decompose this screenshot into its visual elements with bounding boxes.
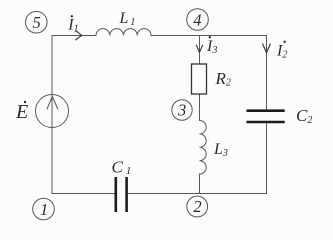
inductor L1 <box>96 29 151 36</box>
node 4 circle <box>187 9 209 31</box>
capacitor C1 plates <box>116 177 127 212</box>
resistor R2 <box>192 64 207 94</box>
svg-text:4: 4 <box>193 11 201 30</box>
wire middle branch between R2 and L3 <box>199 94 201 121</box>
wire bottom-left segment <box>52 193 115 195</box>
svg-text:2: 2 <box>193 197 201 216</box>
label I2 dot <box>284 41 286 43</box>
node 5 circle <box>26 11 48 33</box>
wire middle branch lower (L3 to bottom) <box>199 174 201 193</box>
node 2 circle <box>187 196 208 217</box>
node 3 circle <box>172 100 192 120</box>
wire right upper segment <box>266 36 268 110</box>
svg-text:1: 1 <box>40 200 48 219</box>
arrow I3 <box>196 45 202 52</box>
svg-text:3: 3 <box>177 101 186 120</box>
label I1 dot <box>71 15 73 17</box>
wire top-left segment (node 5 corner to L1) <box>52 35 96 37</box>
node 1 circle <box>33 198 55 220</box>
source E circle <box>36 95 69 128</box>
arrowhead I1 <box>76 31 82 40</box>
capacitor C2 plates <box>247 111 285 122</box>
label E dot <box>24 101 26 103</box>
wire bottom-right segment <box>128 193 267 195</box>
inductor L3 <box>200 121 207 175</box>
svg-text:E: E <box>15 101 28 123</box>
wire middle branch upper (node 4 to R2) <box>199 36 201 65</box>
arrowhead I2 <box>263 44 271 53</box>
wire left side <box>51 36 53 194</box>
wire right lower segment <box>266 124 268 194</box>
label I3 dot <box>209 36 211 38</box>
source E arrowhead <box>47 97 58 110</box>
wire top-right segment (L1 to node 4 corner) <box>151 35 267 37</box>
svg-text:5: 5 <box>33 13 41 32</box>
